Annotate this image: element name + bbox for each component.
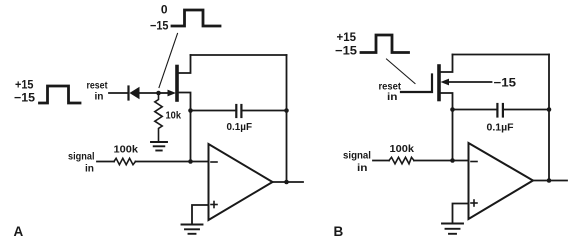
node (reset node, junction dot) xyxy=(156,91,161,96)
transistor Q1 channel bar xyxy=(175,67,179,101)
label -15 (B reset pulse) xyxy=(335,44,357,58)
wire node to gate with arrow xyxy=(159,90,177,97)
wire right feedback vertical B xyxy=(548,55,550,181)
svg-text:in: in xyxy=(85,163,94,175)
capacitor C2 0.1uF xyxy=(453,104,550,117)
waveform reset pulse A xyxy=(40,86,81,103)
ground (op-amp B noninverting) xyxy=(442,224,463,234)
svg-text:in: in xyxy=(95,91,104,103)
node cap right junction B xyxy=(547,107,552,112)
transistor Q2 source lead xyxy=(441,93,453,110)
wire noninverting input to ground A xyxy=(192,205,209,224)
wire noninverting input to ground B xyxy=(453,204,469,224)
svg-text:−15: −15 xyxy=(494,76,517,90)
op-amp U1 xyxy=(209,144,273,220)
label reset in (B) xyxy=(379,81,402,104)
transistor Q1 drain lead xyxy=(179,55,191,73)
ground (below 10k resistor) xyxy=(151,142,167,151)
svg-text:B: B xyxy=(334,224,344,239)
label -15 (A reset pulse) xyxy=(14,91,35,105)
svg-text:+15: +15 xyxy=(15,78,34,92)
label B xyxy=(334,224,344,239)
waveform reset pulse B xyxy=(361,35,409,53)
wire top rail B xyxy=(453,54,550,56)
svg-text:10k: 10k xyxy=(166,110,182,122)
svg-text:100k: 100k xyxy=(390,143,415,155)
svg-text:+15: +15 xyxy=(337,30,357,44)
label 10k xyxy=(166,110,182,122)
svg-text:in: in xyxy=(387,91,398,103)
label 0.1uF (A) xyxy=(227,121,253,133)
waveform gate pulse A xyxy=(172,10,220,26)
svg-text:0.1µF: 0.1µF xyxy=(227,121,253,133)
resistor R3 100k with input wire B xyxy=(373,157,469,164)
svg-text:0: 0 xyxy=(161,3,168,17)
svg-text:A: A xyxy=(14,224,24,239)
wire inverting node vertical A xyxy=(190,111,192,162)
resistor R2 100k with input wire xyxy=(97,158,209,164)
label 0.1uF (B) xyxy=(487,122,515,134)
node cap left junction xyxy=(188,108,193,113)
transistor Q2 drain lead xyxy=(441,55,453,73)
transistor Q2 channel bar xyxy=(437,66,441,100)
svg-text:−15: −15 xyxy=(335,44,357,58)
node output junction B xyxy=(547,178,552,183)
node output junction A xyxy=(284,180,289,185)
label 0 (A gate pulse) xyxy=(161,3,168,17)
wire output A xyxy=(273,181,304,183)
svg-text:signal: signal xyxy=(343,150,371,162)
node inverting input junction A xyxy=(188,159,193,164)
annotation line from pulse to gate B xyxy=(387,59,416,84)
label signal in (B) xyxy=(343,150,371,175)
label 100k (A) xyxy=(114,144,139,156)
node cap right junction xyxy=(284,108,289,113)
wire top rail A xyxy=(191,54,287,56)
node inverting input junction B xyxy=(450,158,455,163)
capacitor C1 0.1uF xyxy=(191,105,287,117)
label reset in xyxy=(87,80,108,103)
svg-text:signal: signal xyxy=(68,151,95,163)
label 100k (B) xyxy=(390,143,415,155)
transistor Q2 body arrow to -15 xyxy=(441,79,492,86)
wire output B xyxy=(533,180,567,182)
wire inverting node vertical B xyxy=(452,110,454,161)
svg-text:0.1µF: 0.1µF xyxy=(487,122,515,134)
label A xyxy=(14,224,24,239)
annotation line from 0/-15 pulse to reset node xyxy=(159,34,178,88)
svg-text:−15: −15 xyxy=(150,19,169,33)
wire reset-in to diode xyxy=(109,92,129,94)
label +15 (B reset pulse) xyxy=(337,30,357,44)
label +15 (A reset pulse) xyxy=(15,78,34,92)
svg-text:in: in xyxy=(357,162,368,174)
svg-text:−15: −15 xyxy=(14,91,35,105)
wire right feedback vertical A xyxy=(286,55,288,182)
label -15 (A gate pulse) xyxy=(150,19,169,33)
transistor Q2 gate lead and gate bar xyxy=(401,75,432,93)
op-amp U2 xyxy=(469,143,534,219)
resistor R1 10k xyxy=(155,95,162,141)
transistor Q1 source lead xyxy=(179,93,191,111)
node cap left junction B xyxy=(450,107,455,112)
ground (op-amp A noninverting) xyxy=(182,225,203,234)
svg-text:100k: 100k xyxy=(114,144,139,156)
label signal in (A) xyxy=(68,151,95,175)
diode D1 xyxy=(129,87,159,100)
label -15 (B body) xyxy=(494,76,517,90)
